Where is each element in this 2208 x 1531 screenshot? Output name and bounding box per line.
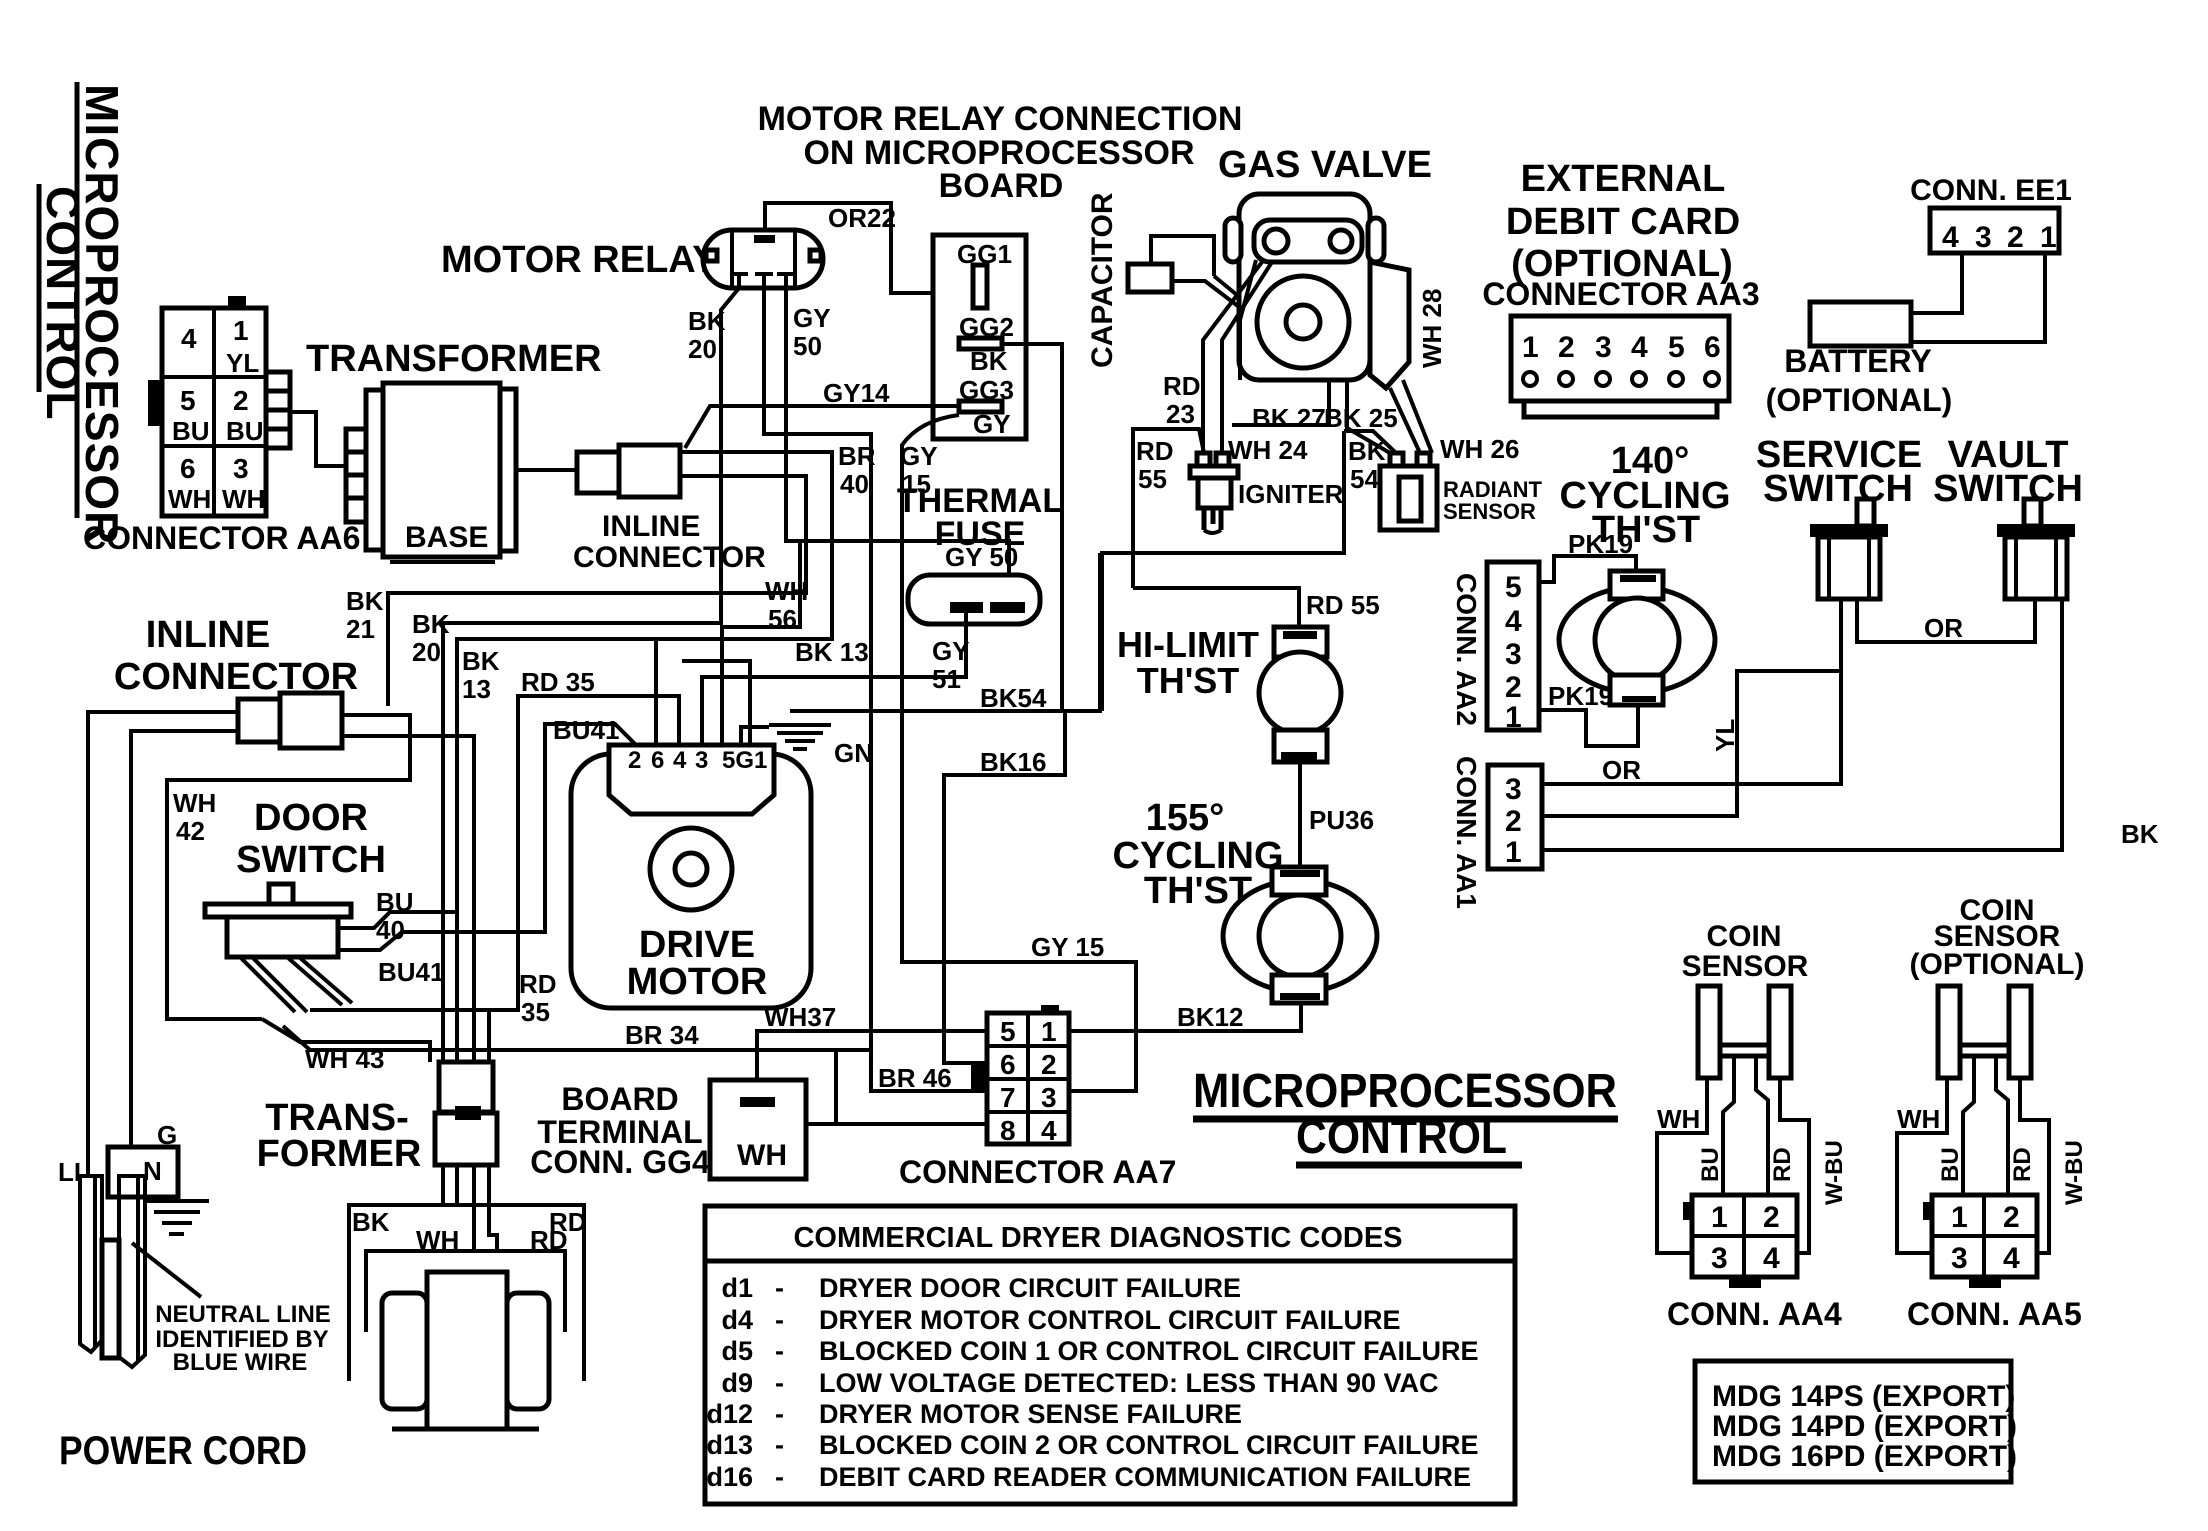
board connector GG1-GG3 box [933,235,1026,439]
wire EE1 pin4 to battery [1911,253,1962,313]
svg-text:56: 56 [768,604,797,634]
svg-text:IGNITER: IGNITER [1238,479,1344,509]
svg-text:BK: BK [352,1207,390,1237]
svg-text:-: - [775,1399,784,1429]
svg-text:TRANSFORMER: TRANSFORMER [306,338,602,380]
svg-text:DRIVE: DRIVE [639,924,755,966]
svg-text:3: 3 [695,747,708,774]
svg-text:WH: WH [173,788,216,818]
svg-text:BU: BU [376,887,414,917]
svg-text:GY: GY [973,409,1011,439]
wire BK AA1 pin1 to vault switch [1542,599,2159,850]
svg-text:RD: RD [1136,436,1174,466]
heading MICROPROCESSOR CONTROL [1193,1065,1618,1165]
wire BU coin sensor 1 [1697,1056,1734,1195]
wire WH24 gas valve to igniter [1222,262,1308,465]
svg-text:MDG 14PS (EXPORT): MDG 14PS (EXPORT) [1712,1380,2015,1413]
svg-text:-: - [775,1305,784,1335]
svg-text:SENSOR: SENSOR [1682,950,1809,983]
svg-text:MOTOR RELAY: MOTOR RELAY [441,239,718,281]
svg-text:6: 6 [180,453,196,484]
svg-text:BR 46: BR 46 [878,1063,952,1093]
svg-text:d4: d4 [721,1305,753,1335]
terminal GG2 [959,312,1014,376]
wire BK12 [1069,1002,1301,1032]
svg-text:FORMER: FORMER [257,1133,422,1175]
wire power cord L1 loop [88,712,238,1176]
ground GN at motor [741,725,873,768]
wire BR40 from relay center pin [764,288,876,1050]
wire AA6 to transformer [290,412,346,466]
svg-text:3: 3 [233,453,249,484]
connector AA4 [1683,1195,1797,1288]
wire WH coin sensor 2 [1897,1078,1947,1253]
svg-text:RD 35: RD 35 [521,667,595,697]
wire BR34 [283,1020,871,1050]
svg-text:WH: WH [222,484,265,514]
diagnostic codes table [705,1206,1515,1504]
label NEUTRAL LINE IDENTIFIED BY BLUE WIRE [155,1301,331,1376]
label INLINE CONNECTOR (lower) [114,614,358,698]
wire BK27 [1232,380,1329,433]
svg-text:CONTROL: CONTROL [1296,1111,1507,1164]
wire transformer to inline connector [516,468,577,472]
svg-text:CONN. AA1: CONN. AA1 [1451,756,1482,909]
svg-text:BK: BK [1348,436,1386,466]
svg-text:5: 5 [180,385,196,416]
svg-text:-: - [775,1462,784,1492]
svg-text:1: 1 [233,315,249,346]
svg-text:-: - [775,1273,784,1303]
label COIN SENSOR [1682,920,1809,983]
svg-text:CONNECTOR AA3: CONNECTOR AA3 [1482,276,1759,312]
svg-text:BK: BK [412,609,450,639]
svg-text:MOTOR RELAY CONNECTION: MOTOR RELAY CONNECTION [758,100,1243,138]
drive motor [571,745,811,1008]
svg-text:BK 27: BK 27 [1252,403,1326,433]
thermostat hi-limit [1259,627,1341,762]
svg-text:BOARD: BOARD [561,1081,678,1117]
svg-text:HI-LIMIT: HI-LIMIT [1117,624,1259,665]
wire BK20 from relay [412,288,739,1062]
svg-text:BK16: BK16 [980,747,1046,777]
wire RD to lower transformer [489,1165,497,1251]
wire BR46 to connector AA7 pin 7 [871,1050,987,1093]
svg-text:WH 28: WH 28 [1417,289,1447,368]
svg-text:BATTERY: BATTERY [1784,343,1932,379]
svg-text:WH: WH [1657,1104,1700,1134]
svg-text:3: 3 [1595,331,1612,364]
svg-text:40: 40 [840,469,869,499]
connector AA6 [148,296,290,516]
svg-text:CONN. AA4: CONN. AA4 [1667,1296,1842,1332]
svg-text:WH: WH [168,484,211,514]
svg-text:3: 3 [1505,638,1522,671]
svg-text:DEBIT CARD READER COMMUNICATIO: DEBIT CARD READER COMMUNICATION FAILURE [819,1462,1471,1492]
svg-text:4: 4 [1505,605,1522,638]
svg-text:d1: d1 [721,1273,753,1303]
svg-text:20: 20 [688,334,717,364]
connector AA2 [1451,562,1539,734]
svg-text:1: 1 [1711,1201,1728,1234]
svg-text:d5: d5 [721,1336,753,1366]
svg-text:WH37: WH37 [764,1002,836,1032]
svg-text:BASE: BASE [405,521,488,554]
svg-text:BK 25: BK 25 [1324,403,1398,433]
label TRANS-FORMER (lower) [257,1097,422,1175]
svg-text:WH 24: WH 24 [1228,435,1308,465]
svg-text:MOTOR: MOTOR [627,961,768,1003]
svg-text:4: 4 [1763,1242,1780,1275]
wire BU40 from door switch [338,887,457,945]
wire BU coin sensor 2 [1937,1056,1974,1195]
transformer (lower) inner loop WH-RD [366,1225,568,1332]
svg-text:1: 1 [1951,1201,1968,1234]
wire RD coin sensor 1 [1756,1056,1796,1195]
wire BK to lower transformer [441,1165,445,1205]
wire BK13 from inline connector [457,452,869,1062]
svg-text:15: 15 [902,469,931,499]
svg-text:3: 3 [1951,1242,1968,1275]
svg-text:(OPTIONAL): (OPTIONAL) [1910,948,2085,981]
callout BK54 [1344,431,1396,494]
svg-text:3: 3 [1975,221,1992,254]
svg-text:1: 1 [1522,331,1539,364]
label VAULT SWITCH [1933,434,2083,510]
svg-text:54: 54 [1350,464,1379,494]
label THERMAL FUSE [897,482,1063,553]
svg-text:4: 4 [1041,1115,1057,1146]
svg-text:SWITCH: SWITCH [1933,468,2083,510]
label HI-LIMIT TH'ST [1117,624,1259,701]
svg-text:INLINE: INLINE [602,510,700,543]
capacitor [1128,236,1243,310]
inline connector (lower) [238,693,342,748]
svg-text:5G1: 5G1 [722,747,767,774]
svg-text:2: 2 [628,747,641,774]
wire BK54 horizontal [790,553,1100,713]
svg-text:MDG 14PD (EXPORT): MDG 14PD (EXPORT) [1712,1410,2017,1443]
callout RD55 [1133,429,1204,588]
svg-text:20: 20 [412,637,441,667]
svg-text:-: - [775,1368,784,1398]
wire GG2 BK to BK54 vertical [1002,344,1062,711]
connector AA3 [1511,316,1729,417]
connector AA5 [1923,1195,2037,1288]
wire BU41 from door switch to drive motor pin 2 [338,715,636,987]
svg-text:4: 4 [2003,1242,2020,1275]
svg-text:RD: RD [1769,1147,1796,1182]
svg-text:WH: WH [765,576,808,606]
svg-text:BLOCKED COIN 2 OR CONTROL CIRC: BLOCKED COIN 2 OR CONTROL CIRCUIT FAILUR… [819,1430,1479,1460]
svg-text:WH: WH [1897,1104,1940,1134]
svg-text:GY: GY [932,636,970,666]
svg-text:BR 34: BR 34 [625,1020,699,1050]
wire OR service switch to vault switch [1857,599,2035,643]
svg-text:INLINE: INLINE [146,614,271,656]
wire W-BU coin sensor 2 [2020,1078,2088,1253]
svg-text:2: 2 [1041,1049,1057,1080]
wire W-BU coin sensor 1 [1780,1078,1848,1253]
svg-text:4: 4 [673,747,687,774]
svg-text:WH: WH [737,1139,787,1172]
svg-text:BLUE WIRE: BLUE WIRE [173,1349,308,1376]
svg-text:1: 1 [1505,701,1522,734]
terminal GG3 [959,375,1014,439]
wire igniter enclosure [1102,431,1344,711]
label BOARD TERMINAL CONN. GG4 [530,1081,710,1180]
svg-text:4: 4 [1631,331,1648,364]
label EXTERNAL DEBIT CARD (OPTIONAL) CONNECTOR AA3 [1482,158,1759,312]
svg-text:-: - [775,1336,784,1366]
wire RD55 to hi-limit [1133,588,1380,627]
svg-text:BK 13: BK 13 [795,637,869,667]
wire GY14 [685,378,959,448]
svg-text:4: 4 [181,323,197,354]
wire PU36 [1300,762,1374,867]
svg-text:COMMERCIAL DRYER DIAGNOSTIC CO: COMMERCIAL DRYER DIAGNOSTIC CODES [793,1222,1402,1254]
wire RD branch to transformer connector [487,1010,491,1062]
svg-text:13: 13 [462,674,491,704]
wire power cord N loop [131,731,238,1176]
door switch [205,884,352,1012]
power cord blade L1 [80,1176,102,1352]
svg-text:SWITCH: SWITCH [1763,468,1913,510]
svg-text:EXTERNAL: EXTERNAL [1521,158,1726,200]
svg-text:50: 50 [793,331,822,361]
svg-text:CONTROL: CONTROL [37,186,89,420]
svg-text:LI: LI [58,1157,81,1187]
svg-text:CONN. AA5: CONN. AA5 [1907,1296,2082,1332]
vault switch [1997,499,2075,599]
wire motor pin 6 [654,639,658,745]
transformer (upper) [346,383,516,562]
svg-text:2: 2 [1505,805,1522,838]
connector AA7 [971,1005,1069,1146]
svg-text:DRYER MOTOR SENSE FAILURE: DRYER MOTOR SENSE FAILURE [819,1399,1242,1429]
svg-text:-: - [775,1430,784,1460]
svg-text:BU: BU [1697,1147,1724,1182]
svg-text:SWITCH: SWITCH [236,839,386,881]
svg-text:BU: BU [226,416,264,446]
svg-text:OR22: OR22 [828,203,896,233]
svg-text:GAS VALVE: GAS VALVE [1218,144,1432,186]
motor relay [703,230,823,288]
svg-text:RD 55: RD 55 [1306,590,1380,620]
connector EE1 [1930,208,2059,254]
svg-text:DEBIT CARD: DEBIT CARD [1506,201,1740,243]
svg-text:4: 4 [1942,221,1959,254]
label 140 CYCLING TH'ST [1560,440,1731,551]
svg-text:d12: d12 [706,1399,753,1429]
svg-text:PK19: PK19 [1568,529,1633,559]
svg-text:PU36: PU36 [1309,805,1374,835]
svg-text:BK12: BK12 [1177,1002,1243,1032]
wire WH box to AA7 pin 8 [806,1122,987,1126]
svg-text:CAPACITOR: CAPACITOR [1086,192,1119,368]
svg-text:BK: BK [688,306,726,336]
svg-text:TH'ST: TH'ST [1137,660,1240,701]
svg-text:2: 2 [1558,331,1575,364]
svg-text:BK54: BK54 [980,683,1047,713]
wire inline connector to transformer WH [342,736,474,1062]
wire WH56 [722,541,808,745]
svg-text:DRYER MOTOR CONTROL CIRCUIT FA: DRYER MOTOR CONTROL CIRCUIT FAILURE [819,1305,1401,1335]
svg-text:1: 1 [2040,221,2057,254]
svg-text:d13: d13 [706,1430,753,1460]
wire WH42 door switch enclosure [167,715,410,1019]
svg-text:BK: BK [970,346,1008,376]
svg-text:FUSE: FUSE [935,515,1026,553]
label 155 CYCLING TH'ST [1113,797,1284,912]
wire EE1 pin1 to battery [1911,253,2045,342]
thermostat 140 cycling [1559,571,1715,705]
svg-text:RD: RD [519,969,557,999]
svg-text:2: 2 [1505,671,1522,704]
svg-text:5: 5 [1668,331,1685,364]
svg-text:CONN. GG4: CONN. GG4 [530,1144,710,1180]
svg-text:WH: WH [416,1225,459,1255]
svg-text:COIN: COIN [1707,920,1782,953]
terminal GG1 [957,239,1012,308]
wire WH26 [1403,380,1519,464]
radiant sensor [1380,453,1543,530]
svg-text:SENSOR: SENSOR [1443,499,1536,524]
svg-text:W-BU: W-BU [1821,1140,1848,1205]
wire RD coin sensor 2 [1996,1056,2036,1195]
svg-text:6: 6 [651,747,664,774]
svg-text:CONNECTOR AA7: CONNECTOR AA7 [899,1154,1176,1190]
svg-text:GY: GY [900,441,938,471]
svg-text:BR: BR [838,441,876,471]
svg-text:51: 51 [932,664,961,694]
inline connector to lower transformer [435,1062,497,1165]
wire YL AA1 pin2 to service switch [1542,671,1841,816]
svg-text:21: 21 [346,614,375,644]
svg-text:2: 2 [1763,1201,1780,1234]
svg-text:CONNECTOR AA6: CONNECTOR AA6 [83,520,360,556]
WH terminal box (board terminal) [710,1080,806,1179]
svg-text:5: 5 [1505,571,1522,604]
neutral line pointer [132,1243,201,1297]
svg-text:3: 3 [1711,1242,1728,1275]
igniter [1190,453,1344,533]
wire WH28 [1390,289,1447,453]
svg-text:42: 42 [176,816,205,846]
wire BK16 [944,711,1065,1063]
svg-text:LOW VOLTAGE DETECTED: LESS THA: LOW VOLTAGE DETECTED: LESS THAN 90 VAC [819,1368,1439,1398]
svg-text:55: 55 [1138,464,1167,494]
svg-text:RD: RD [1163,371,1201,401]
svg-text:CONN. EE1: CONN. EE1 [1910,174,2072,207]
svg-text:CONNECTOR: CONNECTOR [573,541,766,574]
svg-text:BK: BK [462,646,500,676]
svg-text:BU41: BU41 [553,715,619,745]
svg-text:BLOCKED COIN 1 OR CONTROL CIRC: BLOCKED COIN 1 OR CONTROL CIRCUIT FAILUR… [819,1336,1479,1366]
svg-text:WH 26: WH 26 [1440,434,1519,464]
svg-text:1: 1 [1505,836,1522,869]
label INLINE CONNECTOR (upper) [573,510,766,574]
wire motor pin 1 link [682,661,750,745]
thermal fuse [908,575,1040,624]
coin sensor 1 [1698,986,1791,1078]
power cord blade N [119,1176,145,1367]
wire WH coin sensor 1 [1657,1078,1707,1253]
service switch [1810,499,1888,599]
svg-text:DRYER DOOR CIRCUIT FAILURE: DRYER DOOR CIRCUIT FAILURE [819,1273,1241,1303]
svg-text:BU41: BU41 [378,957,444,987]
svg-text:BK: BK [2121,819,2159,849]
wire PK19 AA2 pin1 to 140 thermostat [1539,681,1638,746]
inline connector (upper) [577,445,680,497]
svg-text:CONN. AA2: CONN. AA2 [1451,573,1482,726]
transformer (lower) outer loop BK-RD [349,1205,587,1381]
svg-text:155°: 155° [1146,797,1225,839]
svg-text:2: 2 [2007,221,2024,254]
model list box MDG [1695,1361,2017,1482]
ground (power cord) [147,1147,209,1234]
gas valve [1225,194,1409,388]
connector AA1 [1451,756,1542,909]
svg-text:YL: YL [226,348,259,378]
svg-text:BOARD: BOARD [939,167,1064,205]
svg-text:GY 15: GY 15 [1031,932,1104,962]
svg-text:YL: YL [1710,719,1740,752]
svg-text:GN: GN [834,738,873,768]
svg-text:POWER CORD: POWER CORD [59,1429,307,1473]
svg-text:23: 23 [1166,399,1195,429]
svg-text:5: 5 [1000,1016,1016,1047]
svg-text:(OPTIONAL): (OPTIONAL) [1766,382,1953,418]
svg-text:GY: GY [793,303,831,333]
label SERVICE SWITCH [1756,434,1922,510]
label DOOR SWITCH [236,797,386,881]
svg-text:DOOR: DOOR [254,797,368,839]
wire PK19 AA2 pin5 to 140 thermostat [1539,529,1636,582]
svg-text:GY14: GY14 [823,378,890,408]
svg-text:OR: OR [1602,755,1641,785]
svg-text:BU: BU [1937,1147,1964,1182]
wire WH to lower transformer [455,1165,459,1205]
svg-text:8: 8 [1000,1115,1016,1146]
power cord plug face [58,1120,178,1197]
svg-text:MDG 16PD (EXPORT): MDG 16PD (EXPORT) [1712,1440,2017,1473]
svg-text:RD: RD [2009,1147,2036,1182]
coin sensor 2 [1938,986,2031,1078]
wire WH37 [757,1002,987,1099]
wire GY50 from relay to thermal fuse [786,288,1018,589]
svg-text:NEUTRAL LINE: NEUTRAL LINE [155,1301,331,1328]
svg-text:OR: OR [1924,613,1963,643]
wire GY51 from thermal fuse to drive motor [702,613,970,745]
battery [1766,302,1953,418]
svg-text:1: 1 [1041,1016,1057,1047]
svg-text:d9: d9 [721,1368,753,1398]
svg-text:G: G [157,1120,177,1150]
svg-text:d16: d16 [706,1462,753,1492]
transformer (lower) core [382,1272,549,1429]
svg-text:BK: BK [346,586,384,616]
title MICROPROCESSOR CONTROL (vertical, left) [37,82,128,545]
thermostat 155 cycling [1223,867,1377,1003]
wire OR22 from relay top to GG1 [765,203,971,293]
label COIN SENSOR (OPTIONAL) [1910,894,2085,981]
svg-text:3: 3 [1041,1082,1057,1113]
wire RD23 gas valve to igniter [1163,260,1262,453]
svg-text:W-BU: W-BU [2061,1140,2088,1205]
wire BR34 branch down to pin8 line [834,1050,838,1124]
svg-text:35: 35 [521,997,550,1027]
